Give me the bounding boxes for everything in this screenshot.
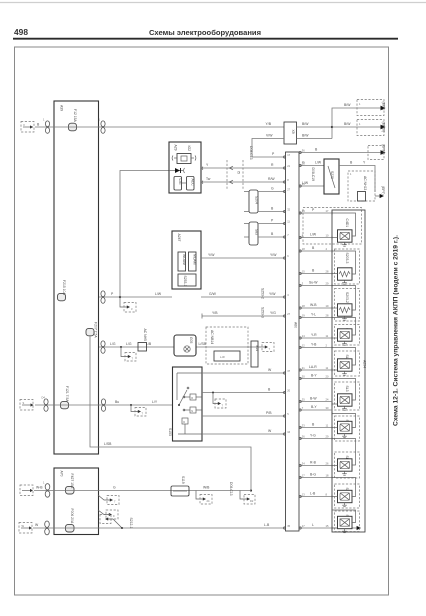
svg-text:Su-W: Su-W: [309, 281, 318, 285]
svg-text:37: 37: [287, 369, 290, 373]
svg-text:27: 27: [287, 188, 290, 192]
svg-text:D08-C19: D08-C19: [311, 168, 315, 182]
svg-text:Y/W: Y/W: [270, 253, 277, 257]
svg-text:P/B: P/B: [266, 411, 272, 415]
wire ECU P y=213: [299, 208, 332, 213]
wire row Bu y=405: [35, 400, 172, 405]
svg-text:20: 20: [287, 389, 290, 393]
wire feed C4D1: [332, 213, 356, 238]
solenoid valve C4D1 symbol: [338, 230, 353, 242]
svg-text:B: B: [350, 161, 353, 165]
wire ECU W/B y=308: [299, 303, 332, 308]
external ref arrow (left, row 528): [19, 523, 32, 534]
svg-text:13: 13: [302, 209, 305, 213]
svg-text:L-B: L-B: [310, 492, 316, 496]
fuse F12 15A: [69, 109, 78, 131]
wire S83 P y=223.5: [244, 219, 285, 224]
ref arrow row 347 end: [258, 343, 274, 352]
svg-text:3: 3: [131, 307, 133, 311]
svg-text:B-Y: B-Y: [311, 405, 317, 409]
wire ECU B y=427.5: [299, 423, 332, 428]
svg-text:C4D1: C4D1: [345, 219, 349, 228]
relay box A29: [169, 142, 201, 193]
ground mark under SLU: [342, 471, 347, 475]
svg-text:S203-2: S203-2: [345, 292, 349, 303]
svg-text:36: 36: [302, 149, 305, 153]
svg-text:I5: I5: [237, 171, 241, 174]
wire ECU LA-R y=370: [299, 365, 332, 370]
svg-text:B: B: [271, 232, 274, 236]
svg-text:AC NH5: AC NH5: [143, 329, 147, 342]
wire S83 B y=237: [244, 232, 285, 237]
svg-text:B-G: B-G: [310, 473, 316, 477]
svg-text:S14: S14: [255, 345, 259, 351]
svg-text:32: 32: [287, 208, 290, 212]
range switch S153: [168, 367, 202, 441]
svg-text:MOAM: MOAM: [193, 254, 197, 265]
svg-text:L-W: L-W: [220, 355, 225, 359]
wire A247 G/W y=297: [201, 288, 285, 299]
svg-text:B: B: [268, 388, 271, 392]
wire ECU G y=165.5: [299, 161, 324, 166]
svg-text:D: D: [183, 420, 185, 424]
wire feed SLU: [332, 439, 356, 466]
svg-text:R: R: [271, 163, 274, 167]
svg-text:Y/B: Y/B: [212, 311, 218, 315]
page number 498: [14, 27, 28, 37]
ground mark under SP: [342, 529, 347, 533]
transmission connector box (solenoid block): [332, 210, 367, 532]
solenoid valve SLT symbol: [338, 421, 353, 433]
S153 contact D: [178, 418, 202, 434]
svg-text:Y/G: Y/G: [270, 311, 276, 315]
svg-text:F427 15A: F427 15A: [70, 474, 74, 489]
header rule: [13, 38, 398, 40]
svg-text:L-B: L-B: [264, 523, 270, 527]
wire S153 B y=392.5: [202, 388, 285, 393]
svg-text:B: B: [271, 207, 274, 211]
wire ECU L bottom y=528: [299, 523, 361, 530]
ref arrow EP7 lower: [375, 186, 385, 198]
noise filter AC NH13: [348, 171, 375, 201]
wire ECU B y=273.5: [299, 269, 332, 274]
solenoid S203-2 (dashed unit): [335, 289, 360, 322]
svg-text:W-B: W-B: [310, 303, 317, 307]
svg-text:AC NB14: AC NB14: [210, 330, 214, 344]
wire ECU L/B y=496.5: [299, 492, 332, 497]
svg-text:P: P: [272, 152, 275, 156]
svg-text:27: 27: [287, 312, 290, 316]
wire X9 right B/W rows: [297, 122, 333, 138]
fuse F006 20A: [66, 509, 75, 533]
svg-text:LA-R: LA-R: [309, 365, 317, 369]
svg-text:D08-C13: D08-C13: [249, 146, 253, 160]
branch S212-1 (row 528 left): [100, 515, 133, 530]
node feed A29 (junction x=120 y=297): [119, 296, 121, 298]
svg-text:Y/B: Y/B: [266, 122, 272, 126]
svg-text:W: W: [268, 429, 272, 433]
wire ECU B/G y=477.5: [299, 473, 332, 478]
transmission dashed boundary: [303, 208, 362, 245]
svg-text:W/B: W/B: [203, 486, 210, 490]
svg-text:5: 5: [287, 412, 289, 416]
connector C (A39 left, row 405): [42, 396, 49, 412]
svg-text:L/Y: L/Y: [152, 400, 158, 404]
connector I5 (dashed pass-through): [227, 160, 243, 189]
wire Y/G y=316: [202, 307, 285, 319]
svg-text:B: B: [37, 122, 40, 126]
svg-text:B-W: B-W: [310, 397, 317, 401]
gauge unit G05: [174, 335, 196, 356]
solenoid SL1 (dashed unit): [335, 325, 360, 346]
svg-text:D2: D2: [250, 499, 254, 503]
svg-text:(EP7): (EP7): [381, 186, 385, 195]
ground mark under S203-2: [342, 316, 347, 320]
wire ECU Y/L y=317.5: [299, 313, 332, 318]
wire ECU Su-W y=285.5: [299, 281, 332, 286]
header title: [149, 28, 261, 37]
page top scan edge: [0, 2, 426, 4]
fuse F427 15A: [66, 474, 75, 495]
wire row 347 mid: [138, 342, 258, 347]
svg-text:L/SB: L/SB: [104, 442, 112, 446]
svg-text:7: 7: [269, 347, 271, 351]
connector label D08-C13 (row 490): [229, 482, 233, 496]
svg-text:7: 7: [132, 357, 134, 361]
wire ECU R/B y=465.5: [299, 461, 332, 466]
splice S83: [249, 222, 259, 245]
svg-text:B/W: B/W: [344, 122, 351, 126]
svg-text:S253-1: S253-1: [183, 276, 187, 287]
solenoid SP (dashed unit): [335, 511, 360, 532]
svg-text:P: P: [312, 208, 315, 212]
svg-text:S253-3: S253-3: [261, 307, 265, 318]
svg-text:1: 1: [43, 118, 45, 122]
svg-text:A247: A247: [177, 234, 181, 242]
wire feed SL3: [332, 379, 356, 405]
svg-text:L/W: L/W: [155, 292, 162, 296]
A247 inner switch 1: [178, 252, 186, 271]
svg-text:WOAM: WOAM: [182, 254, 186, 265]
solenoid valve SLU symbol: [338, 459, 353, 471]
svg-text:Схема 12-1. Система управления: Схема 12-1. Система управления АКПП (мод…: [393, 235, 400, 426]
solenoid block pins: [326, 209, 333, 530]
solenoid SLT (dashed unit): [335, 416, 360, 441]
fuse F121 7.5A: [61, 386, 70, 409]
wire S204 G y=191.5: [244, 187, 285, 192]
svg-text:N: N: [191, 409, 193, 413]
branch ref arrow below junction: [120, 297, 136, 312]
svg-text:S212-1: S212-1: [129, 518, 133, 529]
wire feed S203-2: [332, 286, 356, 311]
ground mark under S203-3: [342, 280, 347, 284]
solenoid SLU (dashed unit): [335, 452, 360, 478]
solenoid valve SL5 symbol: [338, 490, 353, 502]
svg-text:L/G: L/G: [110, 342, 116, 346]
svg-text:8: 8: [287, 178, 289, 182]
svg-text:Y/W: Y/W: [269, 292, 276, 296]
S153 switch arm: [177, 373, 202, 406]
A247 inner switch 3: [178, 274, 196, 287]
selector switch unit A247: [172, 231, 201, 289]
svg-text:D4: D4: [42, 396, 46, 400]
svg-text:24: 24: [207, 499, 210, 503]
svg-text:F: F: [24, 123, 26, 127]
wire S153 W y=373: [202, 368, 285, 373]
connector S14: [251, 341, 259, 367]
svg-text:17: 17: [287, 153, 290, 157]
svg-text:AC NH13: AC NH13: [363, 176, 367, 190]
A70 right diagonal branch 1: [98, 495, 119, 505]
ref arrow end row 490: [240, 491, 255, 505]
svg-text:16: 16: [287, 430, 290, 434]
svg-text:B-Y: B-Y: [311, 374, 317, 378]
svg-text:B/W: B/W: [344, 103, 351, 107]
svg-text:F006 20A: F006 20A: [70, 509, 74, 524]
svg-text:SL3: SL3: [345, 386, 349, 392]
svg-text:(EP7): (EP7): [382, 102, 386, 111]
ref arrow after S119: [196, 491, 212, 505]
splice S204: [249, 190, 259, 213]
wire ECU B/Y y=413.5: [299, 405, 332, 410]
ECU A60 connector bar: [286, 152, 300, 531]
svg-text:A294: A294: [363, 360, 367, 368]
arrow to EP26: [344, 120, 386, 136]
wire ECU Y/G y=438.5: [299, 434, 332, 439]
fuse F207 symbol: [86, 328, 94, 335]
wire junction riser x=332: [331, 108, 383, 139]
junction connector X9: [284, 122, 297, 144]
svg-text:B/W: B/W: [302, 122, 309, 126]
svg-text:CIG: CIG: [178, 179, 182, 185]
svg-text:(EP26): (EP26): [382, 122, 386, 133]
svg-text:4: 4: [326, 247, 328, 251]
wire A29 out R y=168: [201, 163, 285, 170]
svg-text:G: G: [271, 187, 274, 191]
fuse CIG (A29): [174, 177, 182, 191]
connector C (A70 left, row 528): [45, 521, 50, 535]
solenoid SL5 (dashed unit): [335, 484, 360, 508]
wire row y=528 (bottom long row): [33, 523, 286, 528]
stop switch S229: [324, 159, 339, 194]
svg-text:1: 1: [350, 172, 352, 176]
schematic frame: [15, 47, 389, 595]
wire ECU B/Y y=378.5: [299, 374, 332, 379]
wire row y=490 (A70 feed): [34, 486, 251, 491]
svg-text:W: W: [268, 368, 272, 372]
fuse ACC (A29): [182, 177, 195, 191]
svg-text:11: 11: [287, 220, 290, 224]
svg-text:L/W: L/W: [315, 161, 322, 165]
solenoid SL2 (dashed unit): [335, 351, 360, 376]
ground mark under SL5: [342, 503, 347, 507]
side caption: [393, 235, 400, 426]
arrow to EP7: [344, 100, 386, 116]
branch ref arrow row 405: [130, 404, 146, 416]
svg-text:A70: A70: [60, 471, 64, 477]
svg-text:S153: S153: [168, 428, 172, 436]
svg-text:Y: Y: [363, 161, 366, 165]
svg-text:B: B: [312, 246, 315, 250]
ECU left pins: [284, 153, 291, 529]
wire feed SLT: [332, 414, 356, 428]
wire ECU L/W y=186: [299, 168, 324, 187]
connector C (A70 left, row 490): [43, 481, 50, 498]
svg-text:W-B: W-B: [36, 486, 43, 490]
wire ECU B out y=152 to EP21: [299, 144, 386, 160]
wire row P y=297 (A39 to A247): [99, 292, 172, 297]
svg-text:Bu: Bu: [115, 400, 119, 404]
fuse F207 7.5A label: [94, 322, 98, 338]
svg-text:Tw: Tw: [206, 177, 211, 181]
svg-text:W: W: [22, 524, 25, 528]
svg-text:Y-B: Y-B: [311, 343, 317, 347]
wire ECU B/W y=404: [299, 397, 332, 402]
wire X9 V/W drop to P row: [249, 134, 285, 160]
wire ECU L/W y=237.5: [299, 233, 332, 238]
svg-text:7: 7: [222, 404, 224, 408]
wire A247 Y/W y=258: [201, 253, 285, 258]
wire S229 out to NH13: [339, 161, 375, 192]
solenoid valve SL3 symbol: [338, 394, 353, 406]
wire feed SP: [332, 510, 356, 528]
svg-text:21: 21: [287, 164, 290, 168]
svg-text:R: R: [191, 396, 193, 400]
fuse F215 10A: [58, 280, 67, 301]
svg-text:V/W: V/W: [266, 134, 273, 138]
connector C (A39 right, row 127): [99, 118, 106, 134]
svg-text:L: L: [312, 523, 314, 527]
S153 contact N: [183, 407, 202, 413]
ground mark under C4D1: [342, 242, 347, 246]
svg-text:P: P: [271, 219, 274, 223]
S153 contact R: [183, 394, 202, 400]
svg-text:G: G: [113, 486, 116, 490]
dashed unit AC NB14: [206, 327, 248, 364]
svg-text:9: 9: [113, 514, 115, 518]
svg-text:S204: S204: [255, 196, 259, 204]
fuse/relay box A70: [54, 468, 99, 535]
svg-text:A29: A29: [174, 145, 178, 151]
svg-text:7: 7: [114, 500, 116, 504]
ground mark under SLT: [342, 434, 347, 438]
svg-text:R-B: R-B: [310, 461, 317, 465]
svg-text:Y/W: Y/W: [208, 253, 215, 257]
svg-text:F215 10A: F215 10A: [62, 280, 66, 295]
svg-text:S: S: [23, 401, 25, 405]
svg-text:17: 17: [326, 209, 329, 213]
diode (A29): [169, 168, 185, 173]
svg-text:10: 10: [326, 234, 329, 238]
wire ECU Y/R y=338: [299, 333, 332, 338]
svg-text:S83: S83: [255, 229, 259, 235]
branch ref arrow row 392: [212, 392, 226, 409]
A70 right diagonal branch 2: [98, 510, 118, 519]
connector C (A39 right, row 297): [101, 291, 105, 303]
svg-text:1: 1: [359, 102, 361, 106]
svg-text:25: 25: [302, 162, 305, 166]
svg-text:D08-C13: D08-C13: [229, 482, 233, 496]
branch ref arrow row 347: [120, 346, 136, 361]
external feed ref arrow (left, row 127): [21, 122, 34, 133]
solenoid valve SL1 symbol: [338, 329, 353, 341]
svg-text:7: 7: [142, 412, 144, 416]
wire A29 feed vertical: [120, 171, 169, 298]
solenoid valve SP symbol: [338, 516, 353, 528]
wire S204 B y=211.5: [244, 207, 285, 212]
connector C (A39 right, row 347): [101, 341, 105, 353]
external ref arrow (left, row 490): [20, 485, 33, 496]
svg-text:Y: Y: [206, 163, 209, 167]
svg-text:S203-3: S203-3: [345, 253, 349, 264]
svg-text:S119: S119: [181, 476, 185, 484]
svg-text:Y-R: Y-R: [311, 333, 317, 337]
node L/SB to row490 junction: [250, 489, 252, 491]
svg-text:L/G: L/G: [126, 342, 132, 346]
svg-text:ACC: ACC: [191, 179, 195, 187]
svg-text:Схемы электрооборудования: Схемы электрооборудования: [149, 28, 261, 37]
svg-text:P: P: [111, 292, 114, 296]
connector C (A39 left, row 127): [43, 118, 50, 134]
wire feed S203-3: [332, 251, 356, 274]
splice S119: [171, 476, 189, 496]
ground mark under SL1: [342, 341, 347, 345]
svg-text:F121 7.5A: F121 7.5A: [65, 386, 69, 402]
ground mark under SL2: [342, 371, 347, 375]
solenoid SL3 (dashed unit): [335, 382, 360, 410]
svg-text:L/W: L/W: [310, 233, 317, 237]
svg-text:G05: G05: [189, 337, 193, 344]
noise filter AC NH5: [138, 329, 147, 352]
svg-text:L/SB: L/SB: [199, 342, 207, 346]
svg-text:1: 1: [99, 118, 101, 122]
wire ECU Y/B y=347.5: [299, 343, 332, 348]
fuse/relay box A39: [54, 101, 99, 454]
svg-text:Y-G: Y-G: [310, 434, 316, 438]
wire A29 out R/W y=182: [201, 177, 285, 184]
svg-text:B/W: B/W: [302, 134, 309, 138]
solenoid C4D1 (dashed unit): [345, 219, 349, 228]
svg-text:8: 8: [302, 234, 304, 238]
svg-text:1: 1: [359, 122, 361, 126]
solenoid S203-3 (dashed unit): [335, 249, 360, 284]
external ref arrow (left, row 405): [20, 400, 34, 411]
svg-text:G/W: G/W: [209, 292, 217, 296]
wire ECU B y=251: [299, 246, 332, 251]
ECU right pins: [299, 149, 305, 529]
svg-text:X9: X9: [291, 130, 295, 134]
svg-text:B: B: [312, 269, 315, 273]
svg-text:35: 35: [287, 524, 290, 528]
relay coil (A29): [172, 154, 196, 164]
svg-text:A39: A39: [60, 105, 64, 111]
solenoid valve S203-2 symbol: [338, 304, 353, 316]
svg-text:1: 1: [43, 481, 45, 485]
wire row IG main feed y=127: [35, 122, 284, 127]
svg-text:498: 498: [14, 27, 28, 37]
svg-text:7: 7: [287, 233, 289, 237]
svg-text:3: 3: [287, 293, 289, 297]
wire S153 P/B y=416: [202, 411, 285, 416]
svg-text:A60: A60: [294, 322, 298, 328]
svg-text:Y-L: Y-L: [311, 313, 316, 317]
A247 inner switch 2: [189, 252, 197, 271]
svg-text:W: W: [35, 523, 39, 527]
solenoid valve SL2 symbol: [338, 359, 353, 371]
wire L/SB internal routing: [90, 336, 251, 490]
solenoid valve S203-3 symbol: [338, 268, 353, 280]
svg-text:B: B: [315, 148, 318, 152]
